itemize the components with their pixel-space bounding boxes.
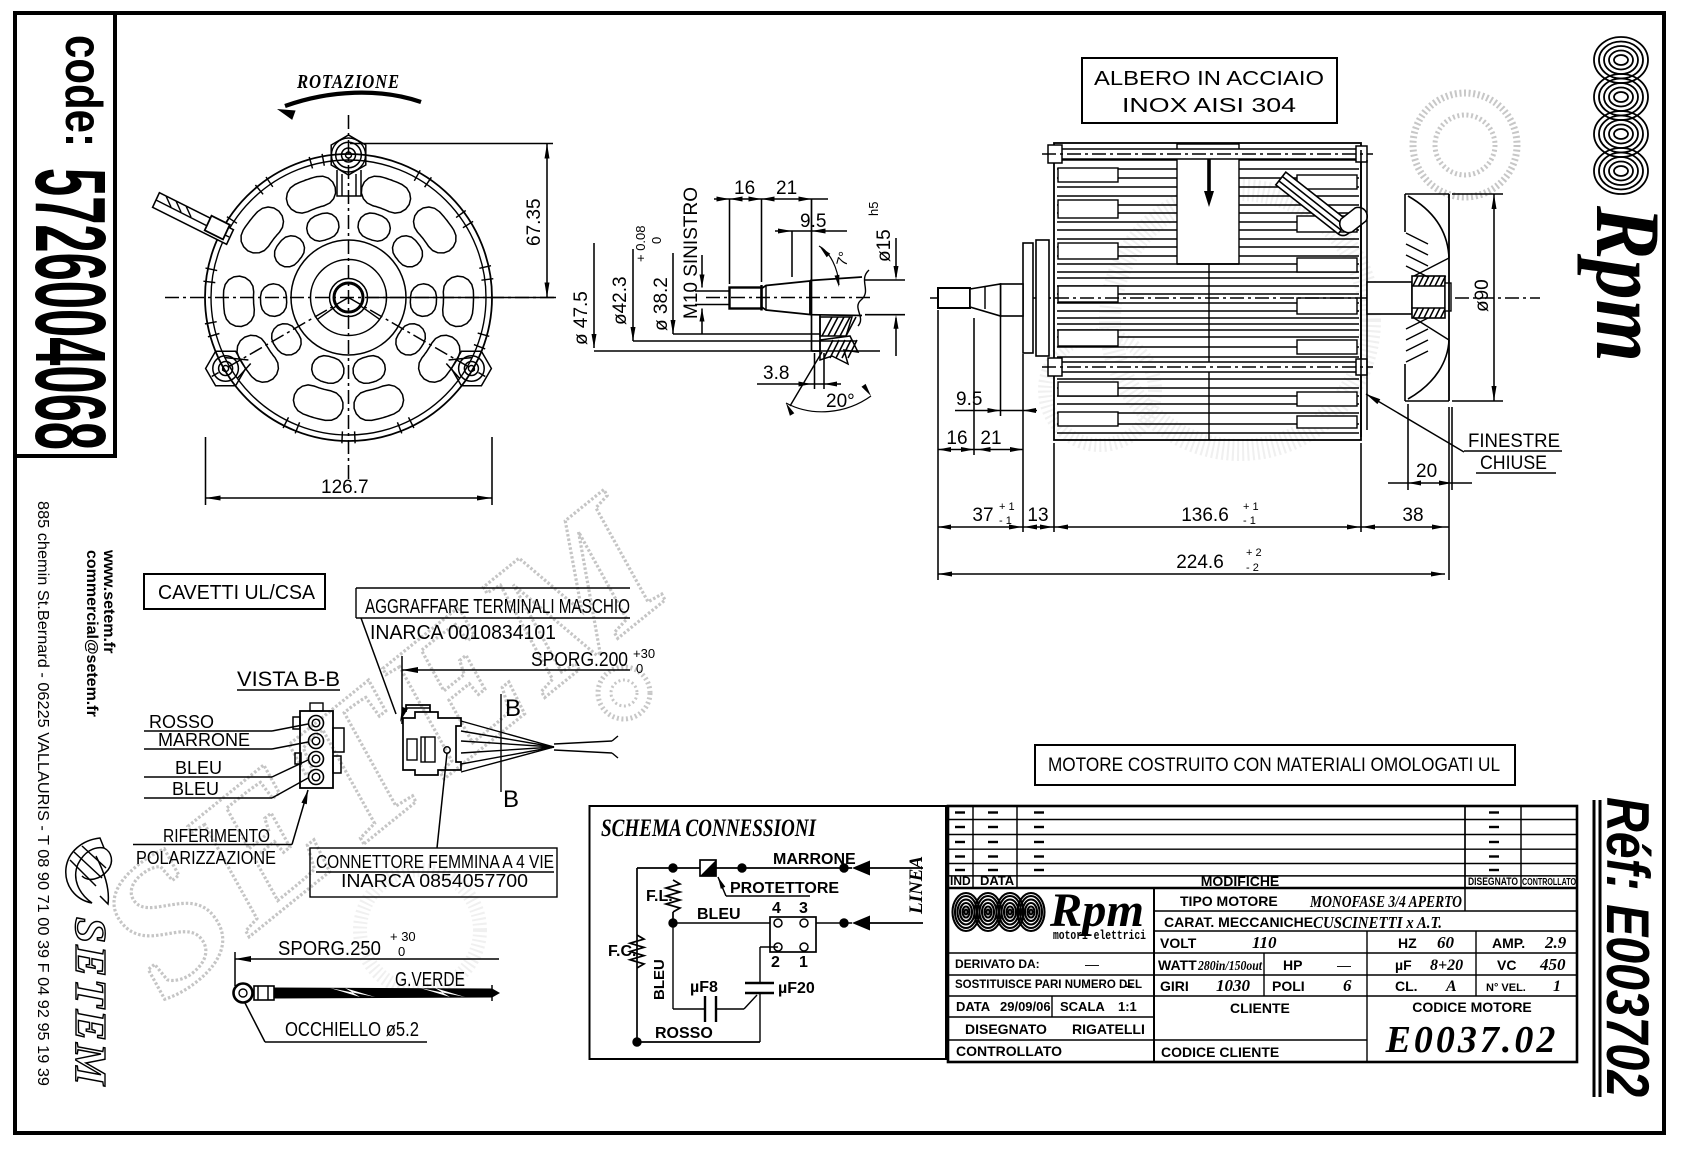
female connector body — [403, 705, 461, 775]
svg-text:21: 21 — [980, 428, 1001, 449]
SPORG.200 dim — [401, 656, 403, 724]
svg-text:OCCHIELLO ø5.2: OCCHIELLO ø5.2 — [285, 1019, 419, 1041]
svg-text:9.5: 9.5 — [956, 389, 982, 410]
dim 126.7 — [205, 437, 207, 505]
svg-text:ROSSO: ROSSO — [655, 1025, 713, 1042]
svg-text:POLI: POLI — [1272, 978, 1305, 994]
flange plate — [811, 199, 813, 351]
svg-text:MARRONE: MARRONE — [158, 730, 250, 750]
svg-text:ø 38.2: ø 38.2 — [651, 277, 672, 331]
terminal circle 2 — [309, 734, 324, 749]
svg-text:3: 3 — [799, 900, 808, 917]
svg-text:- 2: - 2 — [1246, 562, 1259, 574]
svg-text:CONNETTORE FEMMINA A 4 VIE: CONNETTORE FEMMINA A 4 VIE — [316, 851, 554, 872]
MOTORE COSTRUITO box — [1035, 745, 1515, 785]
section B-B line — [500, 694, 502, 792]
mounting screw lower-right — [451, 351, 491, 386]
svg-text:—: — — [1337, 957, 1351, 973]
svg-text:ALBERO IN ACCIAIO: ALBERO IN ACCIAIO — [1094, 68, 1324, 90]
resistor F.L. — [666, 880, 680, 912]
svg-text:9.5: 9.5 — [800, 211, 826, 232]
svg-text:HZ: HZ — [1398, 935, 1417, 951]
dim 16 21 motor — [937, 310, 939, 580]
wire left vertical — [636, 868, 638, 1042]
svg-text:- 1: - 1 — [1243, 515, 1256, 527]
svg-text:SCHEMA CONNESSIONI: SCHEMA CONNESSIONI — [601, 815, 817, 842]
svg-text:F.C.: F.C. — [608, 943, 636, 960]
svg-text:CONTROLLATO: CONTROLLATO — [956, 1043, 1062, 1059]
watermark SETEM diagonal — [59, 455, 709, 1037]
svg-text:110: 110 — [1252, 933, 1277, 952]
svg-text:POLARIZZAZIONE: POLARIZZAZIONE — [136, 848, 276, 868]
cylinder o15 — [810, 277, 862, 281]
connector wires fan — [461, 721, 618, 772]
svg-text:CAVETTI UL/CSA: CAVETTI UL/CSA — [158, 582, 316, 604]
svg-text:h5: h5 — [866, 202, 881, 216]
svg-text:VC: VC — [1497, 957, 1516, 973]
svg-text:CHIUSE: CHIUSE — [1480, 453, 1547, 474]
svg-text:- 1: - 1 — [999, 515, 1012, 527]
svg-text:3.8: 3.8 — [763, 363, 789, 384]
svg-text:29/09/06: 29/09/06 — [1000, 999, 1051, 1014]
connector end view housing — [300, 711, 333, 788]
dim 67.35 — [350, 143, 553, 145]
terminal circle 3 — [309, 752, 324, 767]
left winding teeth — [1058, 168, 1118, 426]
dim 3.8 — [814, 353, 816, 389]
left bearing boss — [1001, 284, 1024, 316]
svg-text:IND: IND — [950, 874, 971, 888]
crimp wing top — [406, 705, 430, 712]
svg-text:6: 6 — [1343, 976, 1352, 995]
CAVETTI UL/CSA box — [144, 574, 325, 609]
tab lower-right — [449, 358, 472, 360]
svg-text:RIFERIMENTO: RIFERIMENTO — [163, 826, 270, 846]
svg-text:5726004068: 5726004068 — [14, 168, 126, 450]
svg-text:INARCA 0010834101: INARCA 0010834101 — [370, 622, 556, 644]
resistor F.C. — [630, 935, 644, 968]
data scala row — [1051, 996, 1053, 1017]
gland cap hatched — [1340, 207, 1368, 232]
svg-text:AMP.: AMP. — [1492, 935, 1525, 951]
svg-text:INOX AISI 304: INOX AISI 304 — [1122, 95, 1296, 117]
svg-text:E0037.02: E0037.02 — [1385, 1019, 1559, 1061]
right winding teeth — [1297, 175, 1357, 428]
AGGRAFFARE label — [356, 587, 630, 589]
svg-text:DATA: DATA — [980, 873, 1015, 888]
svg-text:MOTORE COSTRUITO CON MATERIALI: MOTORE COSTRUITO CON MATERIALI OMOLOGATI… — [1048, 755, 1500, 776]
label FINESTRE CHIUSE — [1366, 394, 1464, 452]
terminal block — [770, 917, 816, 952]
svg-text:13: 13 — [1027, 505, 1048, 526]
rotation arrow — [285, 93, 421, 106]
cell dividers — [1263, 953, 1265, 996]
svg-text:VISTA B-B: VISTA B-B — [237, 668, 340, 691]
svg-text:1030: 1030 — [1216, 976, 1251, 995]
smooth label band — [1177, 144, 1239, 264]
center seam — [1208, 264, 1210, 440]
svg-text:0: 0 — [636, 661, 643, 676]
fan cover front view outer rims — [205, 154, 492, 441]
watermark speckle over motor — [360, 190, 1370, 990]
stator fins horizontal lines — [1057, 151, 1359, 433]
svg-text:67.35: 67.35 — [524, 198, 545, 246]
dia dims 47.5 42.3 38.2 M10 — [593, 243, 595, 348]
svg-text:450: 450 — [1539, 955, 1566, 974]
capacitor uF20 — [745, 982, 774, 984]
fan hub hatched — [1412, 276, 1445, 318]
wire uF8 to uF20 — [716, 1008, 744, 1010]
dim 20deg — [790, 352, 822, 406]
svg-text:B: B — [503, 786, 519, 813]
svg-text:+ 30: + 30 — [390, 929, 416, 944]
svg-text:ø 47.5: ø 47.5 — [571, 291, 592, 345]
svg-text:INARCA 0854057700: INARCA 0854057700 — [341, 870, 528, 891]
protettore — [700, 860, 716, 876]
line arrows — [852, 861, 870, 876]
svg-text:SETEM: SETEM — [66, 917, 115, 1087]
svg-text:38: 38 — [1402, 505, 1423, 526]
svg-text:commercial@setem.fr: commercial@setem.fr — [83, 550, 100, 717]
svg-text:N° VEL.: N° VEL. — [1486, 982, 1526, 994]
wire pin2 to capacitor — [760, 946, 778, 948]
svg-text:FINESTRE: FINESTRE — [1468, 431, 1560, 452]
svg-text:µF: µF — [1395, 957, 1412, 973]
hatch patch upper — [820, 317, 852, 336]
svg-text:ø42.3: ø42.3 — [610, 276, 631, 325]
wire top MARRONE — [637, 867, 700, 869]
taper cone 7deg — [760, 285, 762, 311]
svg-text:ROTAZIONE: ROTAZIONE — [296, 71, 400, 93]
right end shield — [1360, 150, 1362, 437]
left section rows — [948, 952, 1154, 954]
svg-text:8+20: 8+20 — [1430, 957, 1463, 974]
svg-text:CODICE CLIENTE: CODICE CLIENTE — [1161, 1044, 1279, 1060]
mounting screw lower-left — [206, 351, 246, 386]
conduit collar — [205, 216, 230, 240]
cable gland diagonal — [1276, 172, 1351, 235]
rim crimp notches — [203, 154, 493, 443]
svg-text:CARAT. MECCANICHE: CARAT. MECCANICHE — [1164, 914, 1313, 930]
svg-text:21: 21 — [776, 178, 797, 199]
svg-text:ROSSO: ROSSO — [149, 712, 214, 732]
direction arrow in band — [1207, 158, 1211, 197]
svg-text:885 chemin St.Bernard - 0622: 885 chemin St.Bernard - 06225 VALLAURIS … — [34, 501, 51, 1086]
dim 224.6 — [938, 573, 1445, 575]
svg-text:224.6: 224.6 — [1176, 552, 1224, 573]
terminal circle 4 — [309, 770, 324, 785]
svg-text:0: 0 — [398, 944, 405, 959]
svg-text:+ 1: + 1 — [1243, 501, 1259, 513]
svg-text:4: 4 — [772, 900, 781, 917]
left end shield disks — [1023, 243, 1033, 353]
shaft detail: thread M10 — [730, 288, 762, 309]
terminal circle 1 — [309, 716, 324, 731]
svg-text:37: 37 — [972, 505, 993, 526]
hatch patch lower — [820, 336, 858, 364]
svg-text:CUSCINETTI x A.T.: CUSCINETTI x A.T. — [1313, 913, 1442, 932]
IND DATA row — [948, 887, 1577, 889]
svg-text:BLEU: BLEU — [651, 959, 668, 1000]
svg-text:MODIFICHE: MODIFICHE — [1201, 873, 1280, 889]
svg-text:PROTETTORE: PROTETTORE — [730, 880, 839, 897]
dim o90 — [1452, 193, 1503, 195]
svg-text:CODICE MOTORE: CODICE MOTORE — [1412, 999, 1532, 1015]
middle section rows — [1154, 910, 1577, 912]
svg-text:motori elettrici: motori elettrici — [1053, 929, 1146, 943]
svg-text:20°: 20° — [826, 391, 855, 412]
dim 9.5 motor — [1000, 316, 1002, 416]
Rpm spring coils logo — [1594, 37, 1648, 194]
tie rod top — [1060, 149, 1358, 159]
tab lower-left — [225, 358, 248, 360]
shaft left stub — [938, 288, 970, 308]
title block outer — [948, 806, 1577, 1062]
motor body outline — [1054, 143, 1361, 440]
svg-text:CONTROLLATO: CONTROLLATO — [1522, 876, 1576, 888]
svg-text:SOSTITUISCE PARI NUMERO DEL: SOSTITUISCE PARI NUMERO DEL — [955, 979, 1142, 991]
svg-text:SPORG.250: SPORG.250 — [278, 938, 381, 960]
svg-text:CLIENTE: CLIENTE — [1230, 1000, 1290, 1016]
svg-text:16: 16 — [734, 178, 755, 199]
svg-text:RIGATELLI: RIGATELLI — [1072, 1021, 1145, 1037]
svg-text:126.7: 126.7 — [321, 477, 369, 498]
svg-text:F.L.: F.L. — [646, 888, 673, 905]
svg-text:—: — — [1085, 956, 1099, 972]
rpm logo coils — [953, 893, 1045, 931]
top mounting tab — [337, 170, 361, 196]
dim o15 h5 — [865, 279, 905, 281]
svg-text:+ 0.08: + 0.08 — [633, 225, 648, 262]
svg-text:1: 1 — [1553, 978, 1561, 995]
svg-text:Rpm: Rpm — [1577, 205, 1679, 362]
motor axis — [930, 297, 1540, 299]
capacitor uF8 — [704, 996, 706, 1022]
svg-text:+ 1: + 1 — [999, 501, 1015, 513]
svg-text:2.9: 2.9 — [1544, 933, 1567, 952]
shaft right — [1367, 282, 1412, 314]
svg-text:DATA: DATA — [956, 999, 991, 1014]
watermark stamp top right — [598, 93, 1517, 719]
tie rod bottom — [1060, 362, 1358, 372]
svg-text:–: – — [1125, 977, 1133, 993]
svg-text:CL.: CL. — [1395, 978, 1418, 994]
svg-text:ø90: ø90 — [1472, 279, 1493, 312]
svg-text:G.VERDE: G.VERDE — [395, 969, 465, 991]
svg-text:BLEU: BLEU — [697, 906, 741, 923]
svg-text:1: 1 — [799, 954, 808, 971]
svg-text:MONOFASE 3/4 APERTO: MONOFASE 3/4 APERTO — [1309, 892, 1462, 911]
svg-text:1:1: 1:1 — [1118, 999, 1137, 1014]
svg-text:WATT: WATT — [1158, 957, 1197, 973]
svg-text:AGGRAFFARE TERMINALI MASCHIO: AGGRAFFARE TERMINALI MASCHIO — [365, 596, 630, 618]
svg-text:µF8: µF8 — [690, 979, 718, 996]
svg-text:20: 20 — [1416, 461, 1437, 482]
svg-text:TIPO MOTORE: TIPO MOTORE — [1180, 893, 1278, 909]
svg-text:µF20: µF20 — [778, 980, 815, 997]
svg-text:+ 2: + 2 — [1246, 547, 1262, 559]
wire BLEU vertical — [672, 923, 674, 1009]
svg-text:ø15: ø15 — [874, 229, 895, 262]
dim 20 fan — [1407, 404, 1409, 490]
hub circles — [334, 283, 363, 312]
ALBERO IN ACCIAIO label box — [1082, 58, 1337, 123]
revision rows — [948, 806, 1577, 888]
main vertical dividers — [1153, 888, 1155, 1062]
Ref E003702 — [1593, 800, 1596, 1097]
svg-text:0: 0 — [649, 237, 664, 244]
schema connessioni box — [590, 806, 947, 1059]
fan blades — [1405, 194, 1449, 401]
svg-text:+30: +30 — [633, 646, 655, 661]
svg-text:DISEGNATO: DISEGNATO — [965, 1021, 1047, 1037]
dim 37 13 136.6 38 — [1053, 443, 1055, 532]
svg-text:www.setem.fr: www.setem.fr — [100, 549, 117, 653]
SPORG.250 dim — [234, 952, 236, 986]
leader from connector to label — [444, 747, 450, 753]
svg-text:code:: code: — [54, 35, 112, 147]
code box — [15, 13, 115, 456]
break squiggle — [858, 270, 869, 326]
svg-text:LINEA: LINEA — [906, 856, 927, 915]
svg-text:VOLT: VOLT — [1160, 935, 1197, 951]
svg-text:M10 SINISTRO: M10 SINISTRO — [681, 187, 702, 319]
SETEM swan logo — [66, 838, 112, 904]
svg-text:136.6: 136.6 — [1181, 505, 1229, 526]
svg-text:DISEGNATO: DISEGNATO — [1468, 876, 1518, 888]
svg-text:HP: HP — [1283, 957, 1302, 973]
svg-text:60: 60 — [1437, 933, 1455, 952]
cable conduit upper-left — [153, 193, 234, 245]
junction dots — [669, 864, 677, 872]
shaft axis — [706, 297, 872, 299]
svg-text:GIRI: GIRI — [1160, 978, 1189, 994]
revision dashes — [955, 813, 1499, 871]
center lines fan view — [165, 297, 556, 299]
svg-text:BLEU: BLEU — [172, 779, 219, 799]
svg-text:16: 16 — [946, 428, 967, 449]
svg-text:SPORG.200: SPORG.200 — [531, 649, 628, 671]
svg-text:2: 2 — [771, 954, 780, 971]
dim 16-21 — [729, 199, 731, 284]
svg-text:A: A — [1445, 978, 1457, 995]
svg-text:BLEU: BLEU — [175, 758, 222, 778]
mounting screw top — [331, 135, 366, 175]
wire cap to bottom — [759, 993, 761, 1042]
svg-text:Réf: E003702: Réf: E003702 — [1594, 797, 1661, 1097]
svg-text:B: B — [505, 695, 521, 722]
wire F.L. to BLEU node — [672, 912, 674, 923]
svg-text:SCALA: SCALA — [1060, 999, 1105, 1014]
dim 9.5 — [791, 231, 793, 277]
grille slots — [224, 176, 474, 420]
hub key lines — [360, 306, 379, 320]
leader to connector — [361, 618, 396, 714]
svg-text:280in/150out: 280in/150out — [1197, 959, 1263, 974]
CONNETTORE FEMMINA box — [310, 848, 557, 897]
green-yellow wire — [274, 988, 499, 998]
wire BLEU horizontal — [673, 922, 770, 924]
svg-text:MARRONE: MARRONE — [773, 851, 856, 868]
svg-text:DERIVATO DA:: DERIVATO DA: — [955, 957, 1040, 971]
ground ring terminal — [234, 984, 253, 1003]
